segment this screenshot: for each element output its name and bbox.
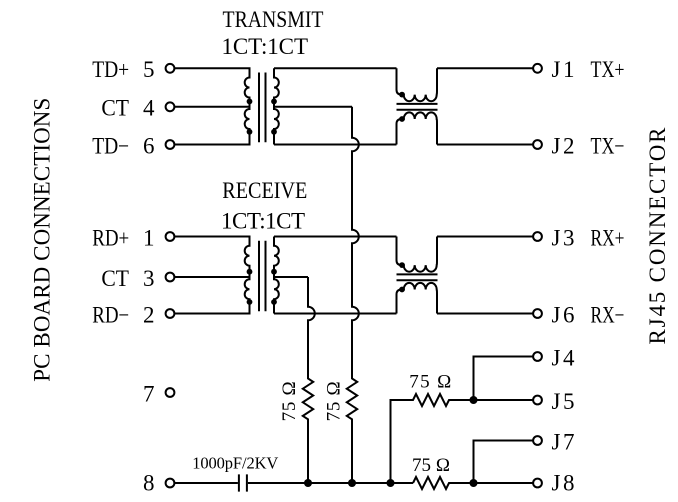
svg-text:1CT:1CT: 1CT:1CT [221, 209, 305, 234]
svg-text:6: 6 [143, 133, 155, 158]
pin 3 terminal circle [166, 273, 175, 282]
wire T1 secondary top to choke CM1 [274, 67, 397, 69]
svg-text:5: 5 [143, 57, 155, 82]
svg-text:RJ45 CONNECTOR: RJ45 CONNECTOR [645, 127, 670, 345]
pin J8 terminal circle [533, 479, 542, 488]
wire J7 stub down to ground bus [474, 441, 534, 484]
vertical drain wire node B with hops and resistor R2 [347, 107, 359, 483]
svg-text:RD−: RD− [92, 302, 129, 327]
svg-text:J3: J3 [552, 225, 575, 250]
pin J4 terminal circle [533, 352, 542, 361]
wire T2 secondary bottom to choke CM2 [274, 313, 397, 315]
resistor R4 in ground bus to J8 [413, 477, 533, 489]
svg-text:7: 7 [143, 381, 155, 406]
junction node A on ground bus [304, 479, 312, 487]
svg-text:1: 1 [143, 225, 155, 250]
svg-text:J8: J8 [552, 471, 575, 496]
wire J4 stub down to J5 node [474, 357, 534, 401]
svg-text:CT: CT [101, 266, 129, 291]
svg-text:75 Ω: 75 Ω [409, 371, 451, 392]
transformer T2 core [259, 241, 266, 312]
junction J4/J5 node [470, 396, 478, 404]
CM2 lower winding phase dot [399, 287, 405, 293]
pin J6 terminal circle [533, 309, 542, 318]
svg-text:J4: J4 [552, 345, 576, 370]
pin J3 terminal circle [533, 232, 542, 241]
svg-text:75 Ω: 75 Ω [279, 381, 300, 421]
svg-text:TD−: TD− [92, 133, 129, 158]
pin 1 terminal circle [166, 232, 175, 241]
pin J7 terminal circle [533, 436, 542, 445]
T2 primary phase dot lower [247, 299, 253, 305]
svg-text:J5: J5 [552, 389, 575, 414]
svg-text:3: 3 [143, 266, 155, 291]
CM1 upper winding phase dot [399, 92, 405, 98]
pin 4 terminal circle [166, 102, 175, 111]
pin 5 terminal circle [166, 64, 175, 73]
pin J5 terminal circle [533, 396, 542, 405]
svg-text:TX−: TX− [591, 133, 625, 158]
wire T1 secondary bottom to choke CM1 [274, 144, 397, 146]
wire ground bus capacitor to resistor R4 [248, 482, 413, 484]
wire CM2 to J3 [437, 236, 533, 238]
svg-text:75 Ω: 75 Ω [324, 381, 345, 421]
svg-text:75 Ω: 75 Ω [412, 455, 450, 476]
wire CM1 to J2 [437, 144, 533, 146]
svg-text:RD+: RD+ [92, 225, 129, 250]
transformer T1 secondary winding [274, 68, 279, 144]
transformer T2 primary winding with leads (RD+/CT/RD-) [175, 237, 250, 314]
pin 2 terminal circle [166, 309, 175, 318]
capacitor C1 1000pF/2KV plates [239, 474, 247, 491]
svg-text:TRANSMIT: TRANSMIT [223, 7, 324, 32]
svg-text:RX+: RX+ [591, 225, 625, 250]
common-mode choke CM2 upper winding with leads [397, 237, 438, 272]
svg-text:TD+: TD+ [92, 57, 129, 82]
pin 7 terminal circle [166, 388, 175, 397]
wire ground bus pin8 to capacitor [175, 482, 238, 484]
vertical drain wire node A with hop and resistor R1 [303, 277, 315, 483]
transformer T1 core [259, 73, 266, 143]
svg-text:J7: J7 [552, 429, 575, 454]
choke CM2 core [397, 274, 438, 280]
svg-text:1000pF/2KV: 1000pF/2KV [192, 453, 278, 472]
svg-text:J1: J1 [552, 57, 575, 82]
pin 6 terminal circle [166, 140, 175, 149]
common-mode choke CM1 lower winding with leads [397, 112, 438, 144]
svg-text:2: 2 [143, 302, 155, 327]
common-mode choke CM2 lower winding with leads [397, 283, 438, 314]
T2 primary phase dot upper [247, 269, 253, 275]
CM1 lower winding phase dot [399, 116, 405, 122]
T1 secondary phase dot lower [271, 129, 277, 135]
T2 secondary phase dot lower [271, 299, 277, 305]
resistor R3 branch from ground bus to J5 [391, 394, 534, 483]
CM2 upper winding phase dot [399, 262, 405, 268]
wire pin4 to T1 primary center tap [175, 106, 250, 108]
transformer T2 secondary winding [274, 237, 279, 314]
svg-text:8: 8 [143, 471, 155, 496]
wire T2 secondary center tap to node A vertical [274, 276, 308, 278]
svg-text:J6: J6 [552, 302, 575, 327]
wire pin3 to T2 primary center tap [175, 276, 250, 278]
pin 8 terminal circle [166, 479, 175, 488]
wire T1 secondary center tap to node B vertical [274, 106, 352, 108]
pin J1 terminal circle [533, 64, 542, 73]
junction node B on ground bus [348, 479, 356, 487]
T1 primary phase dot lower [247, 129, 253, 135]
junction resistor R3 tap on ground bus [387, 479, 395, 487]
svg-text:PC BOARD CONNECTIONS: PC BOARD CONNECTIONS [30, 98, 55, 382]
svg-text:RECEIVE: RECEIVE [222, 178, 307, 203]
T2 secondary phase dot upper [271, 269, 277, 275]
transformer T1 primary winding with leads (TD+/CT/TD-) [175, 68, 250, 144]
svg-text:CT: CT [101, 96, 129, 121]
choke CM1 core [397, 104, 438, 110]
common-mode choke CM1 upper winding with leads [397, 68, 438, 101]
wire T2 secondary top to choke CM2 [274, 236, 397, 238]
svg-text:J2: J2 [552, 133, 575, 158]
svg-text:RX−: RX− [591, 302, 625, 327]
T1 primary phase dot upper [247, 99, 253, 105]
svg-text:TX+: TX+ [591, 57, 625, 82]
pin J2 terminal circle [533, 140, 542, 149]
T1 secondary phase dot upper [271, 99, 277, 105]
svg-text:4: 4 [143, 96, 155, 121]
junction J7/J8 node on ground bus [470, 479, 478, 487]
wire CM2 to J6 [437, 313, 533, 315]
wire CM1 to J1 [437, 67, 533, 69]
svg-text:1CT:1CT: 1CT:1CT [222, 34, 309, 59]
